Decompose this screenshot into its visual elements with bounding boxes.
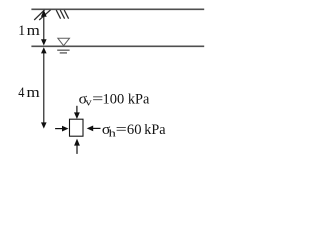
svg-text:kPa: kPa xyxy=(128,92,150,108)
svg-text:4: 4 xyxy=(18,85,24,101)
water table dash 2 xyxy=(60,52,67,54)
dimension 1m line xyxy=(43,12,45,43)
sigma-h arrow left side (pointing right) xyxy=(55,128,63,130)
dimension 4m bottom arrowhead xyxy=(41,122,47,128)
svg-text:m: m xyxy=(27,85,40,101)
svg-text:1: 1 xyxy=(18,23,25,39)
svg-text:m: m xyxy=(27,23,40,39)
ground hatch stroke b xyxy=(39,10,50,20)
dimension 4m line xyxy=(43,50,45,127)
dimension 1m bottom arrowhead xyxy=(41,39,47,45)
ground hatch stroke c xyxy=(56,10,60,19)
svg-text:60: 60 xyxy=(127,122,142,138)
water table line xyxy=(31,45,204,47)
ground surface line xyxy=(31,8,204,10)
svg-text:kPa: kPa xyxy=(144,122,166,138)
water table dash 1 xyxy=(57,49,69,51)
ground hatch stroke d xyxy=(60,10,64,19)
sigma-v arrow (down onto box top) xyxy=(76,106,78,115)
sigma-h arrow right side (pointing left) xyxy=(92,127,101,129)
dimension 4m top arrowhead xyxy=(41,47,47,53)
ground hatch stroke e xyxy=(64,10,68,19)
svg-text:=: = xyxy=(116,122,127,138)
svg-text:100: 100 xyxy=(103,92,125,108)
reaction arrow (up onto box bottom) xyxy=(76,145,78,154)
water table triangle xyxy=(58,38,70,46)
dimension 1m top arrowhead xyxy=(41,10,47,17)
soil element box xyxy=(70,119,84,136)
ground hatch stroke a xyxy=(34,10,44,20)
